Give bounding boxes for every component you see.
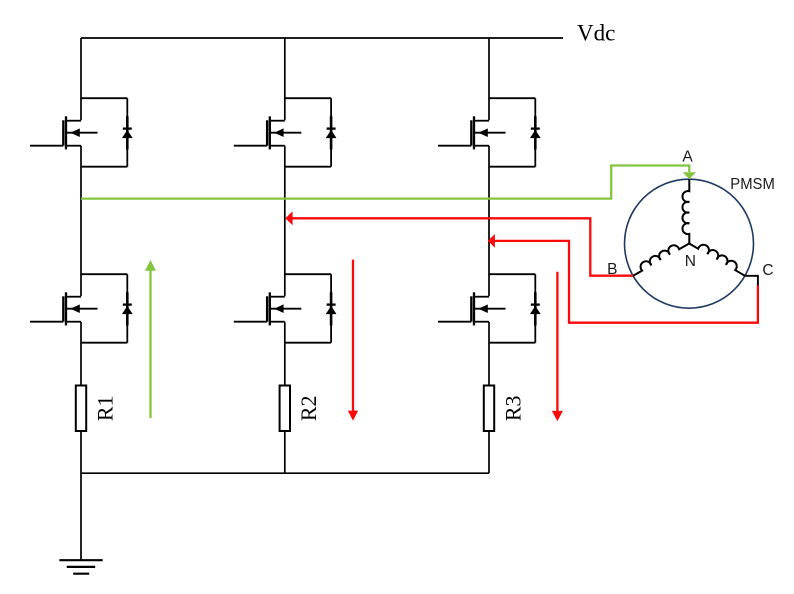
- svg-text:R2: R2: [296, 395, 321, 421]
- svg-text:B: B: [607, 261, 617, 278]
- svg-text:N: N: [685, 253, 696, 270]
- svg-text:R3: R3: [500, 395, 525, 421]
- svg-text:PMSM: PMSM: [730, 176, 775, 193]
- svg-text:A: A: [682, 149, 693, 166]
- svg-text:R1: R1: [92, 395, 117, 421]
- svg-text:Vdc: Vdc: [577, 20, 615, 45]
- svg-text:C: C: [762, 262, 773, 279]
